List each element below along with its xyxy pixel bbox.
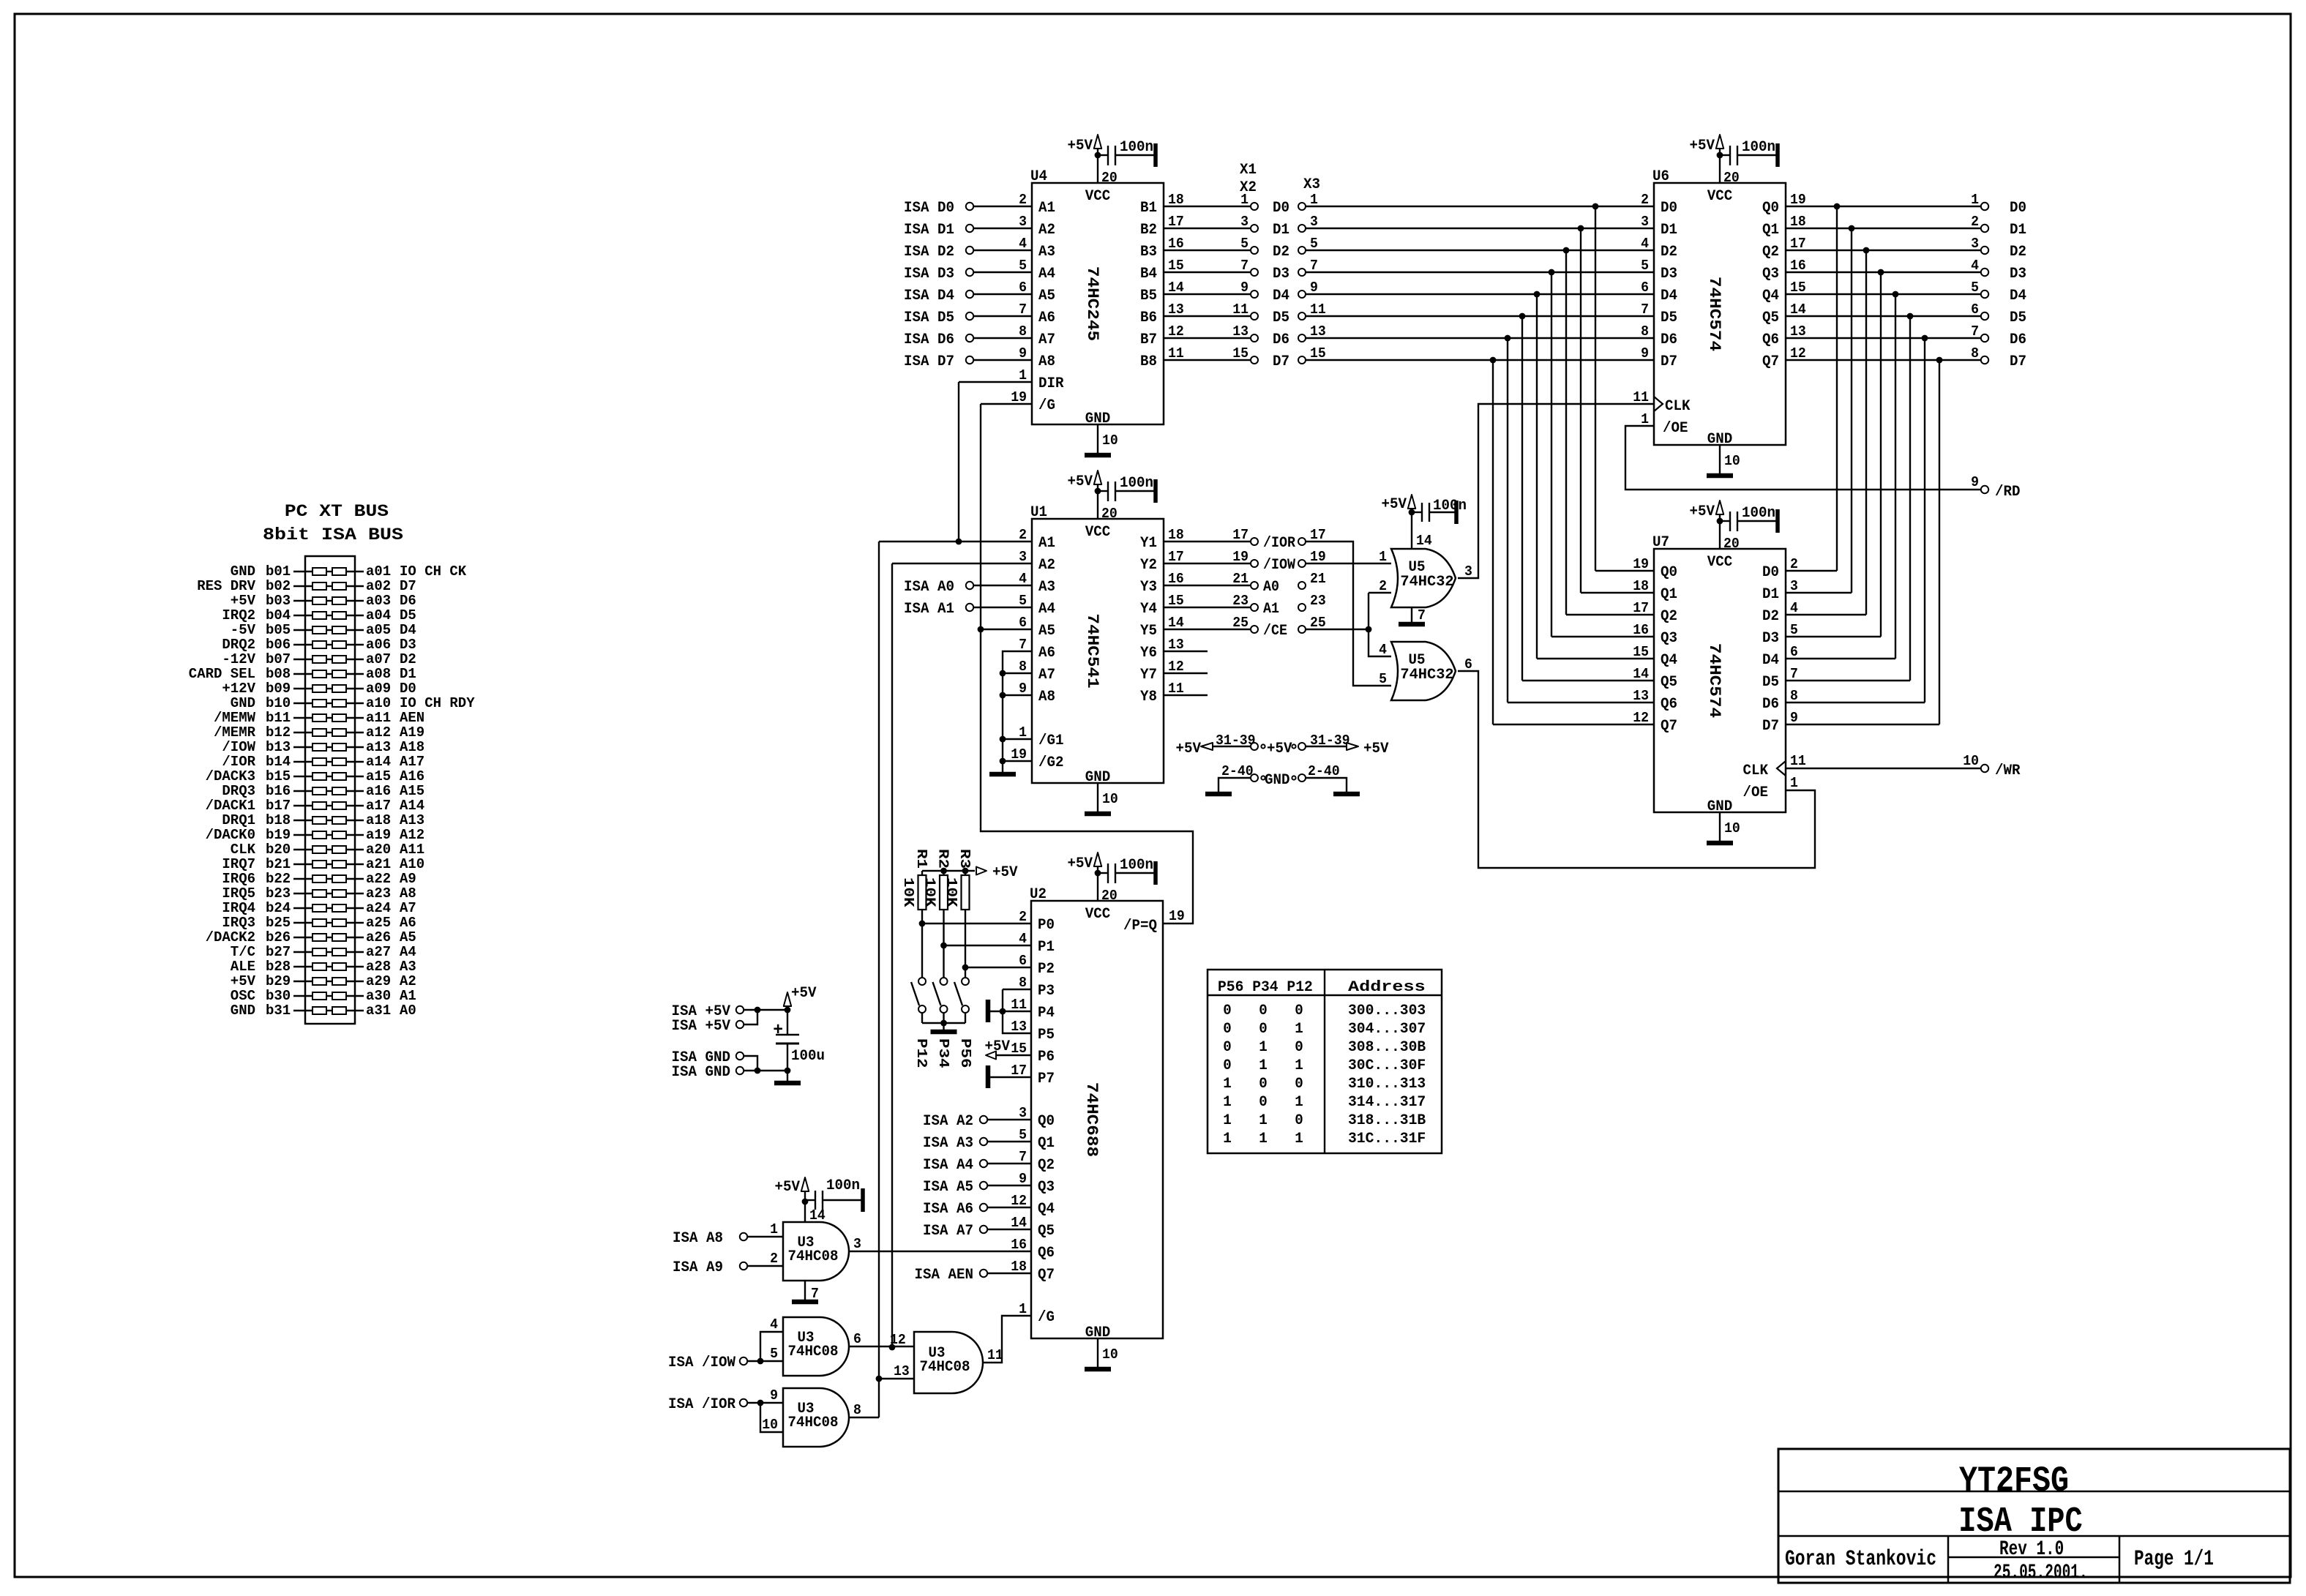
svg-text:CARD SEL: CARD SEL xyxy=(189,666,255,682)
svg-text:12: 12 xyxy=(1168,323,1184,340)
svg-text:Q3: Q3 xyxy=(1661,630,1677,647)
svg-text:Q4: Q4 xyxy=(1038,1201,1055,1218)
svg-text:A1: A1 xyxy=(400,988,416,1004)
svg-text:3: 3 xyxy=(1019,1105,1027,1121)
svg-text:74HC574: 74HC574 xyxy=(1705,277,1723,351)
svg-text:3: 3 xyxy=(1310,214,1318,230)
svg-text:D0: D0 xyxy=(1661,200,1677,217)
svg-text:IRQ2: IRQ2 xyxy=(222,607,255,623)
svg-text:15: 15 xyxy=(1168,593,1184,609)
svg-text:6: 6 xyxy=(1019,953,1027,969)
svg-text:8: 8 xyxy=(1971,345,1979,361)
svg-text:A13: A13 xyxy=(400,812,424,828)
svg-text:YT2FSG: YT2FSG xyxy=(1959,1461,2069,1502)
svg-text:D2: D2 xyxy=(400,651,416,667)
svg-text:1: 1 xyxy=(1310,192,1318,208)
svg-text:D6: D6 xyxy=(400,593,416,609)
svg-text:10: 10 xyxy=(1102,432,1118,449)
svg-text:A1: A1 xyxy=(1038,200,1055,217)
svg-text:A15: A15 xyxy=(400,783,424,799)
svg-text:16: 16 xyxy=(1633,622,1649,638)
svg-text:+5V: +5V xyxy=(231,593,256,609)
svg-text:P56: P56 xyxy=(957,1038,973,1068)
svg-text:3: 3 xyxy=(1019,214,1027,230)
svg-text:1: 1 xyxy=(1019,724,1027,741)
svg-text:Address: Address xyxy=(1348,979,1426,996)
svg-text:a08: a08 xyxy=(366,666,391,682)
svg-text:a24: a24 xyxy=(366,900,391,916)
svg-text:A7: A7 xyxy=(1038,667,1055,683)
svg-text:ISA D7: ISA D7 xyxy=(904,353,954,370)
svg-text:D1: D1 xyxy=(400,666,416,682)
svg-text:A1: A1 xyxy=(1038,535,1055,552)
svg-text:74HC08: 74HC08 xyxy=(920,1359,970,1376)
svg-text:D0: D0 xyxy=(2010,200,2026,217)
svg-text:1: 1 xyxy=(1971,192,1979,208)
svg-text:IRQ4: IRQ4 xyxy=(222,900,255,916)
svg-text:15: 15 xyxy=(1633,644,1649,660)
svg-text:1: 1 xyxy=(1223,1112,1232,1129)
svg-text:0: 0 xyxy=(1223,1039,1232,1056)
svg-text:12: 12 xyxy=(1011,1193,1027,1209)
svg-text:13: 13 xyxy=(1168,637,1184,653)
svg-text:4: 4 xyxy=(1019,931,1027,947)
svg-text:6: 6 xyxy=(1019,280,1027,296)
svg-text:15: 15 xyxy=(1310,345,1326,361)
svg-text:4: 4 xyxy=(770,1316,778,1333)
svg-text:13: 13 xyxy=(1011,1019,1027,1035)
svg-text:9: 9 xyxy=(1310,280,1318,296)
svg-text:B8: B8 xyxy=(1140,353,1157,370)
svg-text:9: 9 xyxy=(1790,710,1798,726)
svg-text:16: 16 xyxy=(1168,236,1184,252)
svg-text:a04: a04 xyxy=(366,607,391,623)
svg-text:10K: 10K xyxy=(943,877,959,907)
svg-text:20: 20 xyxy=(1723,170,1740,186)
svg-text:Q3: Q3 xyxy=(1762,266,1779,282)
svg-text:A5: A5 xyxy=(1038,623,1055,640)
svg-text:U6: U6 xyxy=(1652,168,1669,185)
svg-text:1: 1 xyxy=(1295,1131,1303,1147)
svg-text:b31: b31 xyxy=(266,1003,291,1019)
svg-text:b02: b02 xyxy=(266,578,291,594)
svg-text:+12V: +12V xyxy=(222,681,255,697)
svg-text:GND: GND xyxy=(1085,769,1111,786)
svg-text:Rev 1.0: Rev 1.0 xyxy=(1999,1538,2064,1561)
svg-text:Q2: Q2 xyxy=(1038,1157,1055,1174)
svg-text:1: 1 xyxy=(1259,1039,1268,1056)
svg-text:B2: B2 xyxy=(1140,222,1157,239)
svg-text:b18: b18 xyxy=(266,812,291,828)
svg-text:a19: a19 xyxy=(366,827,391,843)
svg-text:12: 12 xyxy=(1168,659,1184,675)
svg-text:a07: a07 xyxy=(366,651,391,667)
svg-text:20: 20 xyxy=(1101,506,1118,522)
svg-text:25.05.2001.: 25.05.2001. xyxy=(1994,1562,2088,1584)
svg-text:A2: A2 xyxy=(1038,222,1055,239)
svg-text:31-39: 31-39 xyxy=(1310,733,1350,749)
svg-text:VCC: VCC xyxy=(1707,554,1733,571)
svg-text:A17: A17 xyxy=(400,754,424,770)
svg-text:P56 P34 P12: P56 P34 P12 xyxy=(1218,979,1313,996)
svg-text:8bit ISA BUS: 8bit ISA BUS xyxy=(263,525,403,544)
svg-text:D2: D2 xyxy=(2010,244,2026,261)
svg-text:/MEMW: /MEMW xyxy=(214,710,256,726)
svg-text:0: 0 xyxy=(1295,1039,1303,1056)
svg-text:/G1: /G1 xyxy=(1038,733,1064,749)
svg-text:AEN: AEN xyxy=(400,710,424,726)
svg-text:+5V: +5V xyxy=(1382,496,1407,513)
svg-text:/DACK1: /DACK1 xyxy=(206,798,255,814)
svg-text:D7: D7 xyxy=(1661,353,1677,370)
svg-text:4: 4 xyxy=(1971,258,1979,274)
svg-text:25: 25 xyxy=(1310,615,1326,631)
svg-text:1: 1 xyxy=(1295,1057,1303,1074)
svg-text:10K: 10K xyxy=(900,877,916,907)
svg-text:1: 1 xyxy=(1223,1094,1232,1111)
svg-text:Y3: Y3 xyxy=(1140,579,1157,596)
svg-text:A6: A6 xyxy=(400,915,416,931)
svg-text:A3: A3 xyxy=(400,959,416,975)
svg-text:a13: a13 xyxy=(366,739,391,755)
svg-text:ISA A7: ISA A7 xyxy=(923,1223,973,1240)
svg-text:DRQ2: DRQ2 xyxy=(222,637,255,653)
svg-text:1: 1 xyxy=(1790,775,1798,791)
svg-text:17: 17 xyxy=(1790,236,1806,252)
svg-text:/WR: /WR xyxy=(1995,763,2021,779)
svg-text:A3: A3 xyxy=(1038,579,1055,596)
svg-text:ISA /IOW: ISA /IOW xyxy=(668,1355,735,1371)
svg-text:16: 16 xyxy=(1011,1237,1027,1253)
svg-text:/IOR: /IOR xyxy=(222,754,255,770)
svg-text:11: 11 xyxy=(1790,753,1806,769)
svg-text:74HC245: 74HC245 xyxy=(1083,266,1101,341)
svg-text:Q5: Q5 xyxy=(1661,674,1677,691)
svg-text:Q7: Q7 xyxy=(1038,1267,1055,1284)
svg-text:A0: A0 xyxy=(1263,579,1279,596)
svg-text:5: 5 xyxy=(1971,280,1979,296)
svg-text:+5V: +5V xyxy=(1267,741,1292,757)
svg-text:b23: b23 xyxy=(266,885,291,902)
svg-text:23: 23 xyxy=(1232,593,1249,609)
svg-text:9: 9 xyxy=(1641,345,1649,361)
svg-text:15: 15 xyxy=(1168,258,1184,274)
svg-text:6: 6 xyxy=(1971,301,1979,318)
svg-text:2-40: 2-40 xyxy=(1308,763,1340,779)
svg-text:13: 13 xyxy=(1310,323,1326,340)
svg-text:20: 20 xyxy=(1101,170,1118,186)
svg-text:D3: D3 xyxy=(1661,266,1677,282)
svg-text:Q2: Q2 xyxy=(1661,608,1677,625)
svg-text:0: 0 xyxy=(1259,1076,1268,1093)
svg-text:9: 9 xyxy=(1240,280,1249,296)
svg-text:a27: a27 xyxy=(366,944,391,960)
svg-text:+5V: +5V xyxy=(1068,855,1093,872)
svg-text:U7: U7 xyxy=(1652,534,1669,551)
svg-text:74HC32: 74HC32 xyxy=(1400,574,1453,591)
svg-text:/P=Q: /P=Q xyxy=(1123,918,1157,934)
svg-text:+5V: +5V xyxy=(775,1179,801,1196)
svg-text:1: 1 xyxy=(1295,1021,1303,1038)
svg-text:a11: a11 xyxy=(366,710,391,726)
svg-text:-12V: -12V xyxy=(222,651,255,667)
svg-text:DRQ1: DRQ1 xyxy=(222,812,255,828)
svg-text:B1: B1 xyxy=(1140,200,1157,217)
svg-text:11: 11 xyxy=(1011,997,1027,1013)
svg-text:6: 6 xyxy=(1464,656,1472,673)
svg-text:b05: b05 xyxy=(266,622,291,638)
svg-text:/OE: /OE xyxy=(1663,420,1688,437)
svg-text:+5V: +5V xyxy=(1690,138,1715,154)
svg-text:7: 7 xyxy=(1019,1149,1027,1165)
svg-text:ISA D1: ISA D1 xyxy=(904,222,954,239)
svg-text:1: 1 xyxy=(1259,1057,1268,1074)
svg-text:b13: b13 xyxy=(266,739,291,755)
svg-text:T/C: T/C xyxy=(231,944,255,960)
svg-text:B4: B4 xyxy=(1140,266,1157,282)
svg-text:74HC574: 74HC574 xyxy=(1705,643,1723,718)
svg-text:GND: GND xyxy=(231,563,255,580)
svg-text:/OE: /OE xyxy=(1743,784,1769,801)
svg-text:a14: a14 xyxy=(366,754,391,770)
svg-text:D1: D1 xyxy=(2010,222,2026,239)
svg-text:ISA A9: ISA A9 xyxy=(673,1259,723,1276)
svg-text:ISA D0: ISA D0 xyxy=(904,200,954,217)
svg-text:D6: D6 xyxy=(1273,331,1289,348)
svg-text:13: 13 xyxy=(1232,323,1249,340)
svg-text:B5: B5 xyxy=(1140,288,1157,304)
svg-text:23: 23 xyxy=(1310,593,1326,609)
svg-text:GND: GND xyxy=(231,695,255,711)
svg-text:/G: /G xyxy=(1038,397,1055,414)
svg-text:D4: D4 xyxy=(1661,288,1677,304)
svg-text:/IOW: /IOW xyxy=(222,739,255,755)
svg-text:b19: b19 xyxy=(266,827,291,843)
svg-text:D1: D1 xyxy=(1762,586,1779,603)
svg-text:74HC08: 74HC08 xyxy=(788,1248,839,1265)
svg-text:0: 0 xyxy=(1223,1021,1232,1038)
svg-text:15: 15 xyxy=(1232,345,1249,361)
svg-text:8: 8 xyxy=(1019,659,1027,675)
svg-text:6: 6 xyxy=(1019,615,1027,631)
svg-text:+5V: +5V xyxy=(1068,138,1093,154)
svg-text:14: 14 xyxy=(1416,533,1432,549)
svg-text:D5: D5 xyxy=(2010,310,2026,326)
svg-text:Q1: Q1 xyxy=(1762,222,1779,239)
svg-text:Q6: Q6 xyxy=(1661,696,1677,713)
svg-text:PC XT BUS: PC XT BUS xyxy=(285,502,389,521)
svg-text:17: 17 xyxy=(1310,527,1326,543)
svg-text:310...313: 310...313 xyxy=(1348,1076,1426,1093)
svg-text:0: 0 xyxy=(1295,1112,1303,1129)
svg-text:2: 2 xyxy=(1019,527,1027,543)
svg-text:A8: A8 xyxy=(1038,689,1055,705)
svg-text:b30: b30 xyxy=(266,988,291,1004)
svg-text:18: 18 xyxy=(1168,527,1184,543)
svg-text:300...303: 300...303 xyxy=(1348,1003,1426,1019)
svg-text:19: 19 xyxy=(1790,192,1806,208)
svg-text:R3: R3 xyxy=(957,849,973,869)
svg-text:D5: D5 xyxy=(1661,310,1677,326)
svg-text:D1: D1 xyxy=(1661,222,1677,239)
svg-text:IO CH CK: IO CH CK xyxy=(400,563,467,580)
svg-text:100n: 100n xyxy=(1742,139,1775,156)
svg-text:Q6: Q6 xyxy=(1762,331,1779,348)
svg-text:ISA D5: ISA D5 xyxy=(904,310,954,326)
svg-text:b29: b29 xyxy=(266,973,291,989)
svg-text:a28: a28 xyxy=(366,959,391,975)
svg-text:Q1: Q1 xyxy=(1661,586,1677,603)
svg-text:D1: D1 xyxy=(1273,222,1289,239)
svg-text:+5V: +5V xyxy=(1176,741,1202,757)
svg-text:b10: b10 xyxy=(266,695,291,711)
svg-text:19: 19 xyxy=(1169,908,1185,924)
svg-text:8: 8 xyxy=(1790,688,1798,704)
svg-text:314...317: 314...317 xyxy=(1348,1094,1426,1111)
svg-text:308...30B: 308...30B xyxy=(1348,1039,1426,1056)
svg-text:11: 11 xyxy=(987,1347,1003,1363)
svg-text:19: 19 xyxy=(1633,556,1649,572)
svg-text:b11: b11 xyxy=(266,710,291,726)
svg-text:Q2: Q2 xyxy=(1762,244,1779,261)
svg-text:D3: D3 xyxy=(1762,630,1779,647)
svg-text:21: 21 xyxy=(1310,571,1326,587)
svg-text:a03: a03 xyxy=(366,593,391,609)
svg-text:A4: A4 xyxy=(1038,601,1055,618)
svg-text:2: 2 xyxy=(1379,578,1387,594)
svg-text:A16: A16 xyxy=(400,768,424,784)
svg-text:A18: A18 xyxy=(400,739,424,755)
svg-text:a25: a25 xyxy=(366,915,391,931)
svg-text:D5: D5 xyxy=(1273,310,1289,326)
svg-text:13: 13 xyxy=(1633,688,1649,704)
svg-text:ISA IPC: ISA IPC xyxy=(1958,1502,2082,1542)
svg-text:4: 4 xyxy=(1790,600,1798,616)
svg-text:Q4: Q4 xyxy=(1661,652,1677,669)
svg-text:3: 3 xyxy=(1790,578,1798,594)
svg-text:ISA A1: ISA A1 xyxy=(904,601,954,618)
svg-text:D0: D0 xyxy=(400,681,416,697)
svg-text:a21: a21 xyxy=(366,856,391,872)
svg-text:+5V: +5V xyxy=(985,1038,1011,1055)
svg-text:1: 1 xyxy=(770,1221,778,1237)
svg-text:Q7: Q7 xyxy=(1661,718,1677,735)
svg-text:1: 1 xyxy=(1223,1131,1232,1147)
svg-text:Y7: Y7 xyxy=(1140,667,1157,683)
svg-text:a31: a31 xyxy=(366,1003,391,1019)
svg-text:RES DRV: RES DRV xyxy=(197,578,255,594)
svg-text:a30: a30 xyxy=(366,988,391,1004)
svg-text:GND: GND xyxy=(231,1003,255,1019)
svg-text:10: 10 xyxy=(762,1417,778,1433)
svg-text:P3: P3 xyxy=(1038,983,1055,1000)
svg-text:Y8: Y8 xyxy=(1140,689,1157,705)
svg-text:b01: b01 xyxy=(266,563,291,580)
svg-text:6: 6 xyxy=(853,1331,861,1347)
svg-text:2: 2 xyxy=(1641,192,1649,208)
svg-text:GND: GND xyxy=(1085,411,1111,427)
svg-text:b06: b06 xyxy=(266,637,291,653)
svg-text:Q3: Q3 xyxy=(1038,1179,1055,1196)
svg-text:ISA D2: ISA D2 xyxy=(904,244,954,261)
svg-text:15: 15 xyxy=(1790,280,1806,296)
svg-text:0: 0 xyxy=(1295,1003,1303,1019)
svg-text:7: 7 xyxy=(1240,258,1249,274)
svg-text:9: 9 xyxy=(770,1387,778,1404)
svg-text:+5V: +5V xyxy=(231,973,256,989)
svg-text:31-39: 31-39 xyxy=(1216,733,1256,749)
svg-text:ISA D6: ISA D6 xyxy=(904,331,954,348)
svg-text:P2: P2 xyxy=(1038,961,1055,978)
svg-text:a10: a10 xyxy=(366,695,391,711)
svg-text:1: 1 xyxy=(1295,1094,1303,1111)
svg-text:D6: D6 xyxy=(1762,696,1779,713)
svg-text:a06: a06 xyxy=(366,637,391,653)
svg-text:/G2: /G2 xyxy=(1038,754,1064,771)
svg-text:19: 19 xyxy=(1310,549,1326,565)
svg-text:b08: b08 xyxy=(266,666,291,682)
svg-text:74HC688: 74HC688 xyxy=(1082,1082,1101,1157)
svg-text:2: 2 xyxy=(770,1251,778,1267)
svg-text:5: 5 xyxy=(1310,236,1318,252)
svg-text:/MEMR: /MEMR xyxy=(214,724,256,741)
svg-text:-5V: -5V xyxy=(231,622,256,638)
svg-text:ALE: ALE xyxy=(231,959,255,975)
svg-text:2: 2 xyxy=(1971,214,1979,230)
svg-text:74HC32: 74HC32 xyxy=(1400,667,1453,683)
svg-text:30C...30F: 30C...30F xyxy=(1348,1057,1426,1074)
svg-text:Y5: Y5 xyxy=(1140,623,1157,640)
svg-text:1: 1 xyxy=(1259,1131,1268,1147)
svg-text:0: 0 xyxy=(1259,1003,1268,1019)
svg-text:+5V: +5V xyxy=(791,985,817,1002)
svg-text:9: 9 xyxy=(1019,1171,1027,1187)
svg-text:4: 4 xyxy=(1019,236,1027,252)
svg-text:5: 5 xyxy=(1379,671,1387,687)
svg-text:18: 18 xyxy=(1790,214,1806,230)
svg-text:A3: A3 xyxy=(1038,244,1055,261)
svg-text:5: 5 xyxy=(1641,258,1649,274)
svg-text:5: 5 xyxy=(1019,593,1027,609)
svg-text:7: 7 xyxy=(1418,607,1426,623)
svg-text:100n: 100n xyxy=(1742,505,1775,522)
svg-text:13: 13 xyxy=(1790,323,1806,340)
svg-text:1: 1 xyxy=(1019,1301,1027,1317)
svg-text:A4: A4 xyxy=(400,944,416,960)
svg-text:A10: A10 xyxy=(400,856,424,872)
svg-text:11: 11 xyxy=(1310,301,1326,318)
svg-text:VCC: VCC xyxy=(1085,524,1111,541)
svg-text:11: 11 xyxy=(1168,345,1184,361)
svg-text:17: 17 xyxy=(1011,1063,1027,1079)
svg-text:a09: a09 xyxy=(366,681,391,697)
svg-text:74HC08: 74HC08 xyxy=(788,1344,839,1360)
svg-text:3: 3 xyxy=(1240,214,1249,230)
svg-text:R1: R1 xyxy=(913,849,929,869)
svg-text:ISA A4: ISA A4 xyxy=(923,1157,973,1174)
svg-text:X2: X2 xyxy=(1240,179,1257,196)
svg-text:D7: D7 xyxy=(1762,718,1779,735)
svg-text:DRQ3: DRQ3 xyxy=(222,783,255,799)
svg-text:D6: D6 xyxy=(2010,331,2026,348)
svg-text:ISA A6: ISA A6 xyxy=(923,1201,973,1218)
svg-text:A4: A4 xyxy=(1038,266,1055,282)
svg-text:5: 5 xyxy=(1790,622,1798,638)
svg-text:P12: P12 xyxy=(913,1038,929,1068)
svg-text:Y1: Y1 xyxy=(1140,535,1157,552)
svg-text:8: 8 xyxy=(853,1402,861,1418)
svg-text:P5: P5 xyxy=(1038,1027,1055,1044)
